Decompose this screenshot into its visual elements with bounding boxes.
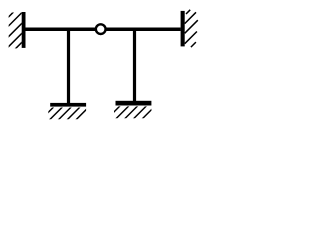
hinge circle bbox=[96, 24, 106, 34]
right wall hatching bbox=[185, 10, 198, 47]
right support hatching bbox=[96, 60, 201, 130]
left column bbox=[67, 29, 70, 103]
left wall bar bbox=[22, 12, 26, 48]
right wall bar bbox=[181, 11, 185, 47]
beam bbox=[26, 28, 181, 32]
left wall hatching bbox=[0, 0, 74, 60]
right support bar bbox=[116, 101, 152, 106]
right column bbox=[133, 29, 136, 101]
left support hatching bbox=[31, 60, 136, 130]
left support bar bbox=[50, 103, 86, 107]
